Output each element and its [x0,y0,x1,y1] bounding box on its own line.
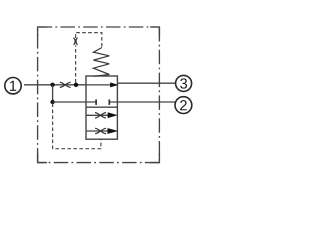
row 3 flow path with orifice and arrow [86,114,109,116]
junction dot A [50,83,54,87]
valve body (two-position envelope) [86,76,117,139]
port 3 [176,75,192,91]
pilot orifice (restriction on pilot line) [74,38,78,45]
port 1 [5,78,21,94]
wire: valve body to port 3 [118,82,176,84]
boundary box (dash-dot component envelope) [37,27,39,163]
blocked path tick right (row 2) [108,99,110,105]
flow path 1 to 3 (open, arrow) [86,84,111,86]
row 4 flow path with orifice and arrow [86,130,108,132]
valve body divider line [86,106,117,108]
pilot line: node B up to pilot orifice (dashed) [75,45,77,82]
wire: junction A down to node A2 [52,85,54,102]
wire: node A2 to blocked port (row 2 left) [53,101,96,103]
orifice on main line [60,82,71,87]
wire: row 2 right to port 2 [110,101,176,103]
spring [94,48,110,77]
blocked path tick left (row 2) [95,99,97,105]
pilot line: node A2 down, under valve, up to valve bottom (dashed) [53,104,101,149]
wire: port 1 to valve body (main line) [24,84,87,86]
port 2 [175,97,192,114]
junction dot A2 [50,100,54,104]
junction dot B [74,83,78,87]
pilot line: orifice up and over to spring (dashed) [76,33,102,48]
